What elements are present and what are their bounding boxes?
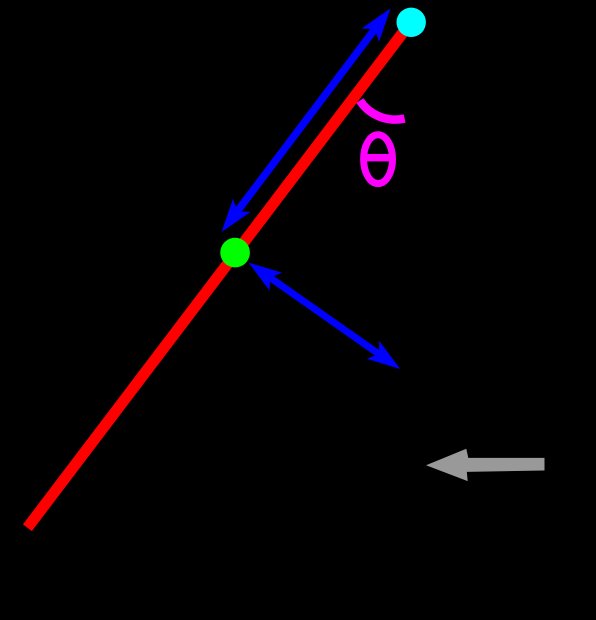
displacement arrow (blue double-headed, perpendicular from bob) <box>249 263 401 369</box>
pivot dot (cyan) <box>397 8 426 37</box>
gray arrow (pointing left) <box>426 449 545 481</box>
rod (red pendulum line) <box>27 22 411 528</box>
length arrow L (blue double-headed, parallel to rod) <box>222 8 391 232</box>
bob dot (green) <box>220 238 250 268</box>
angle arc (magenta) <box>360 101 405 120</box>
theta label (magenta) <box>364 135 393 184</box>
